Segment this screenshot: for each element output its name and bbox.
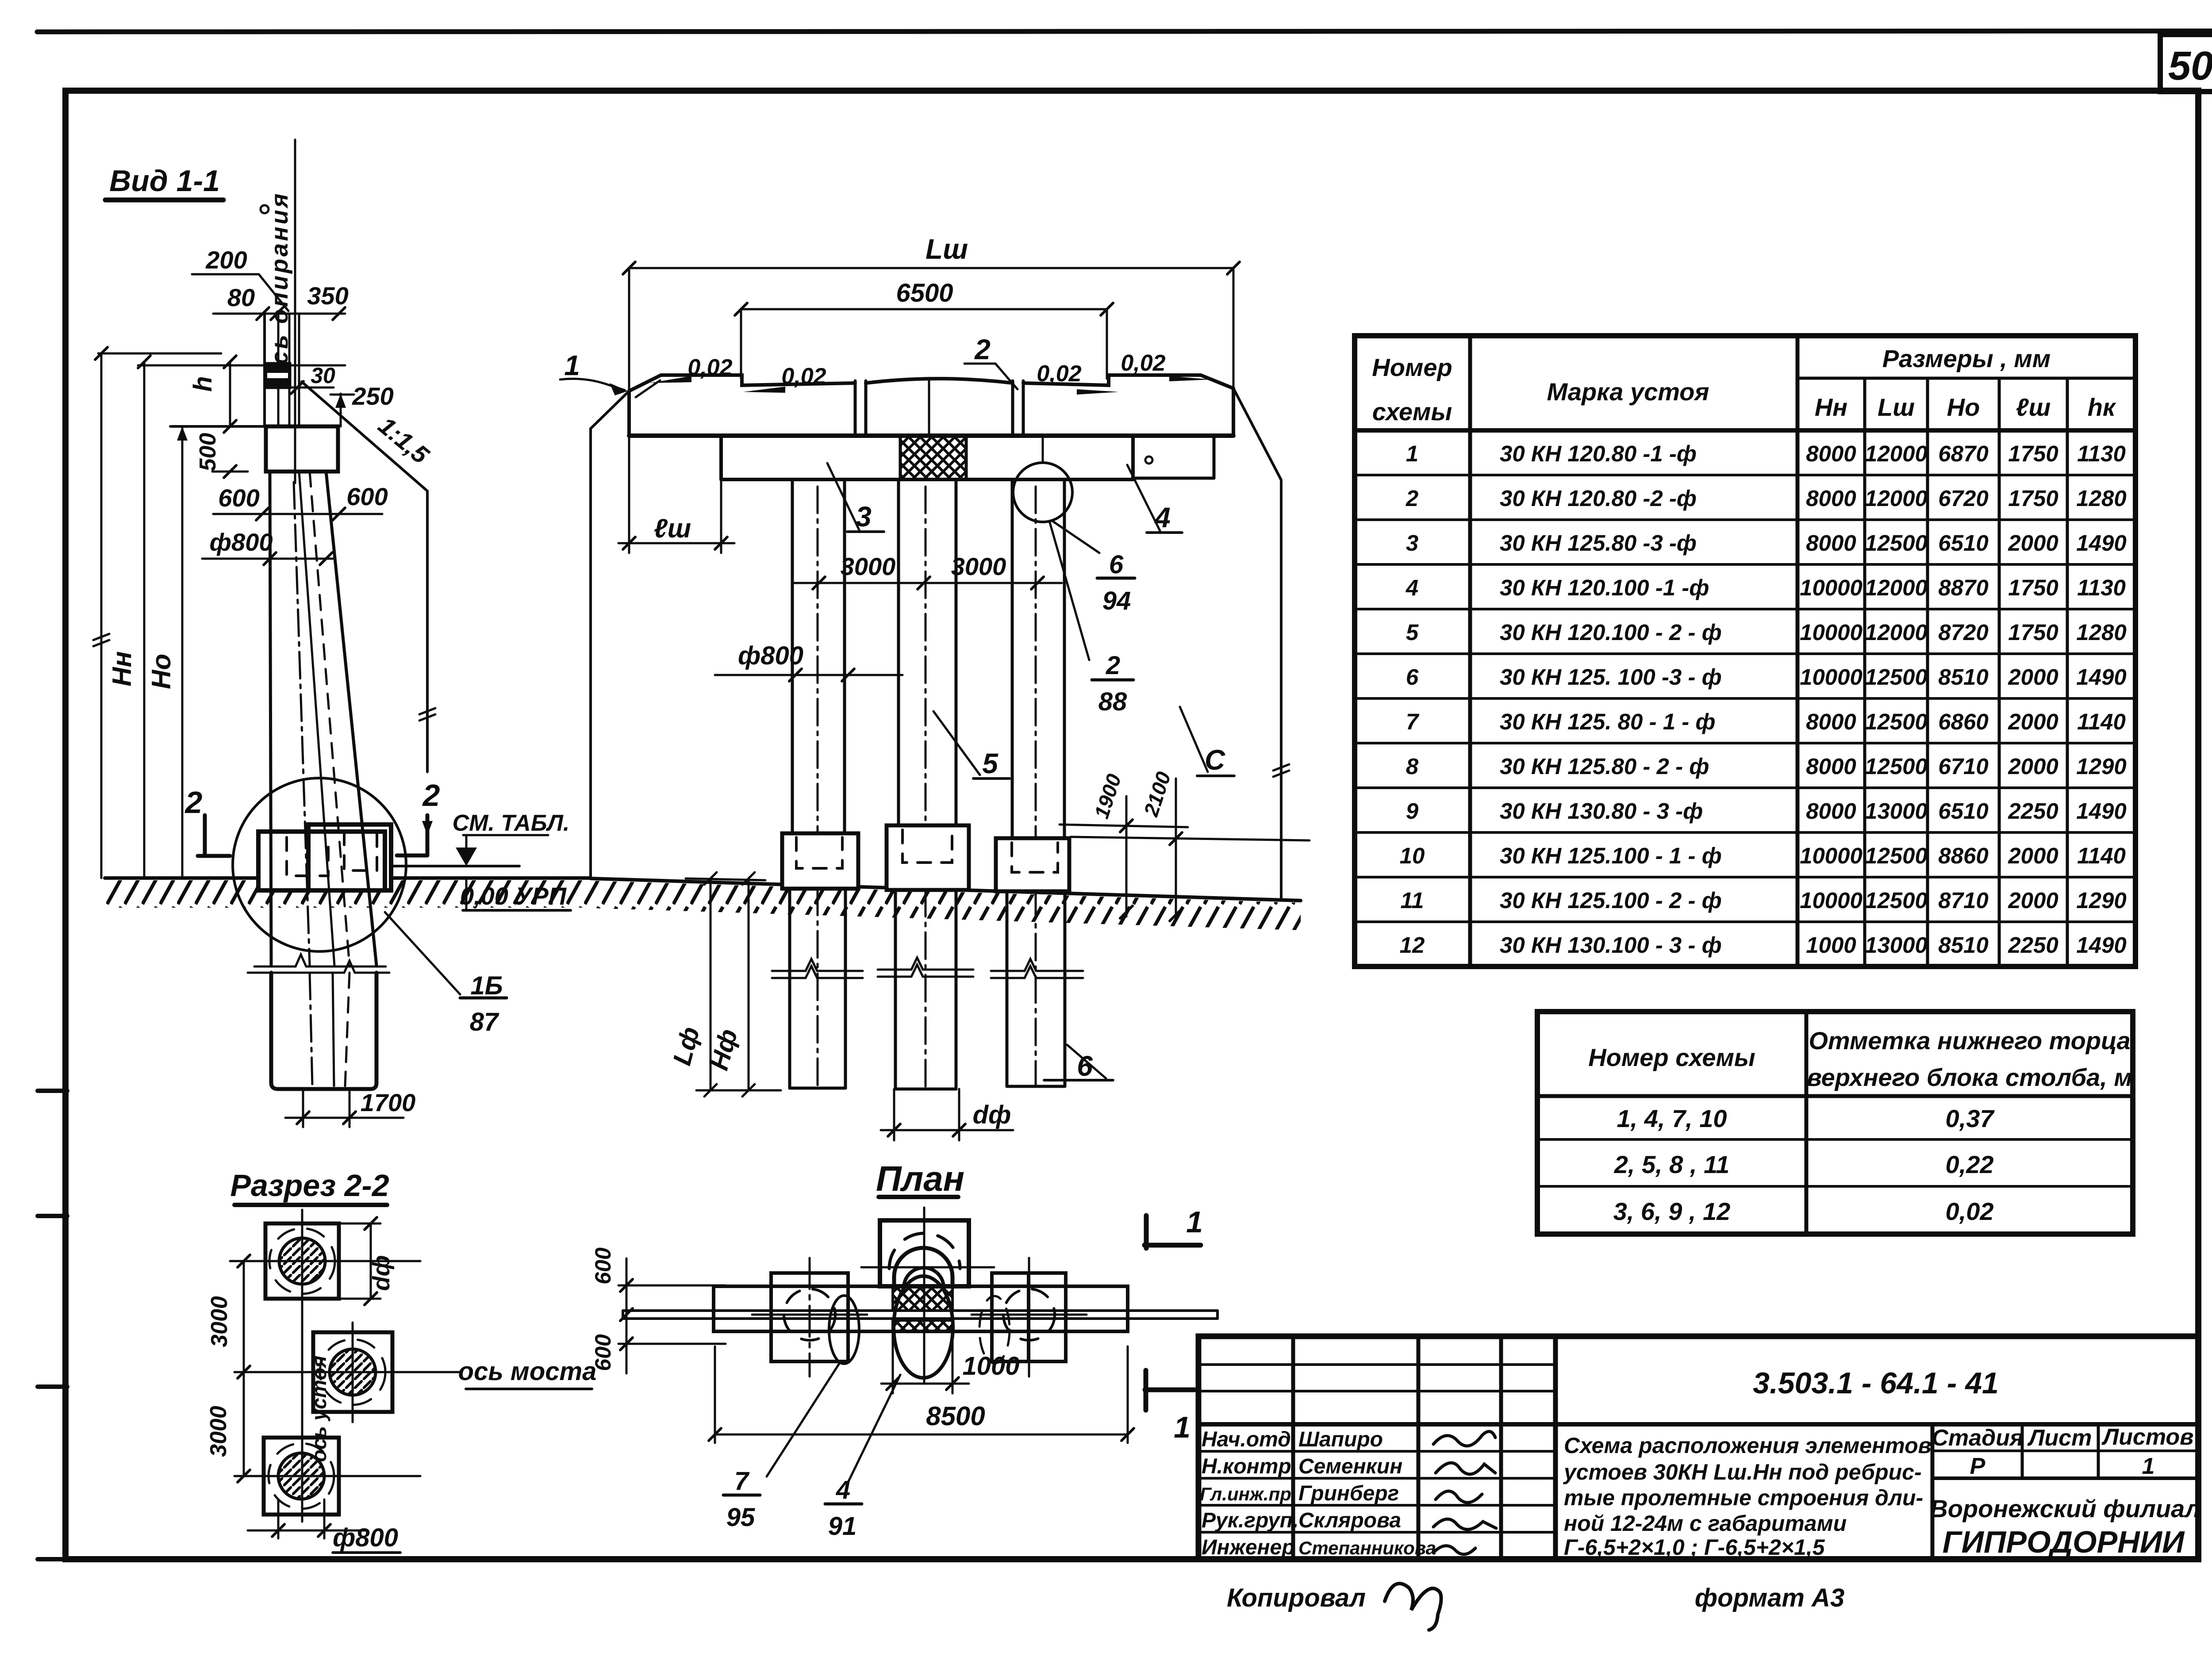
beam ends	[627, 391, 631, 436]
bearing axis line	[294, 140, 296, 483]
svg-text:600: 600	[591, 1247, 615, 1285]
svg-text:1: 1	[1174, 1411, 1190, 1444]
svg-text:1Б: 1Б	[470, 971, 503, 1000]
svg-text:12: 12	[1400, 932, 1425, 958]
slope wedge marks	[636, 380, 660, 397]
dim 1000	[892, 1332, 894, 1393]
svg-text:Но: Но	[146, 654, 176, 689]
svg-text:7: 7	[734, 1467, 750, 1496]
svg-text:95: 95	[726, 1503, 755, 1532]
svg-text:8000: 8000	[1806, 530, 1856, 556]
svg-text:30: 30	[311, 363, 335, 388]
cap (nasadka)	[719, 436, 723, 479]
back wall strip (long band)	[623, 1309, 1217, 1312]
SM.TABL leader	[453, 810, 570, 836]
svg-text:ф800: ф800	[210, 528, 273, 556]
svg-text:8000: 8000	[1806, 441, 1856, 466]
svg-text:План: План	[876, 1159, 964, 1198]
svg-text:8720: 8720	[1938, 620, 1988, 645]
svg-text:1: 1	[1406, 441, 1418, 466]
dim Lsh	[629, 267, 1233, 269]
square S3	[264, 1438, 339, 1515]
svg-text:ф800: ф800	[333, 1523, 398, 1552]
svg-text:Р: Р	[1970, 1453, 1985, 1479]
svg-text:10000: 10000	[1800, 575, 1863, 600]
foundation block B (view 1-1)	[308, 824, 391, 890]
column verticals	[263, 314, 266, 426]
svg-text:Стадия: Стадия	[1932, 1425, 2023, 1451]
callout 6	[1077, 1050, 1093, 1082]
svg-text:1, 4, 7, 10: 1, 4, 7, 10	[1617, 1104, 1727, 1132]
svg-text:8: 8	[1406, 754, 1419, 779]
svg-text:10: 10	[1400, 843, 1425, 868]
svg-text:3000: 3000	[951, 552, 1006, 580]
svg-text:7: 7	[1406, 709, 1420, 734]
svg-text:30 КН 120.100 - 2 - ф: 30 КН 120.100 - 2 - ф	[1500, 620, 1722, 645]
dim line 80/350	[213, 313, 345, 315]
section mark 2 (right)	[422, 778, 440, 813]
big ellipse (battered pile, plan)	[894, 1276, 953, 1378]
axis of bridge label	[458, 1357, 597, 1386]
svg-text:2000: 2000	[2008, 664, 2058, 690]
svg-text:0,02: 0,02	[781, 364, 826, 389]
svg-text:1000: 1000	[1806, 932, 1856, 958]
title block horizontals	[1198, 1363, 1555, 1366]
square S1	[265, 1223, 339, 1299]
pile break marks (view 1-1)	[254, 955, 386, 966]
svg-text:2: 2	[1106, 651, 1120, 680]
svg-text:2: 2	[422, 778, 440, 813]
svg-text:2000: 2000	[2008, 888, 2058, 913]
svg-text:1: 1	[1186, 1205, 1203, 1239]
svg-text:1140: 1140	[2077, 709, 2126, 734]
svg-text:6: 6	[1406, 664, 1419, 690]
svg-text:Схема расположения элементов: Схема расположения элементов	[1564, 1433, 1932, 1458]
svg-text:9: 9	[1406, 798, 1419, 824]
svg-text:8870: 8870	[1938, 575, 1988, 600]
svg-text:Размеры , мм: Размеры , мм	[1882, 345, 2051, 372]
svg-text:11: 11	[1401, 888, 1424, 913]
svg-text:600: 600	[346, 483, 388, 510]
dim 500	[170, 425, 266, 428]
svg-text:6500: 6500	[896, 279, 953, 307]
svg-text:1130: 1130	[2077, 441, 2126, 466]
svg-text:8000: 8000	[1806, 798, 1856, 824]
svg-text:10000: 10000	[1800, 664, 1863, 690]
beam joints	[854, 381, 857, 436]
dim 600+600	[213, 513, 382, 515]
svg-text:12500: 12500	[1865, 709, 1928, 734]
svg-text:12500: 12500	[1865, 530, 1928, 556]
ground line	[105, 876, 591, 880]
main table header text	[1372, 345, 2116, 426]
svg-text:Листов: Листов	[2101, 1424, 2193, 1450]
svg-text:5: 5	[1406, 620, 1419, 645]
svg-text:8500: 8500	[926, 1401, 985, 1431]
svg-text:1290: 1290	[2076, 754, 2126, 779]
svg-text:1700: 1700	[361, 1089, 416, 1116]
svg-text:30 КН 125.100 - 1 - ф: 30 КН 125.100 - 1 - ф	[1500, 843, 1722, 868]
svg-text:10000: 10000	[1800, 843, 1863, 868]
svg-text:Шапиро: Шапиро	[1298, 1428, 1383, 1451]
svg-text:Рук.груп.: Рук.груп.	[1202, 1509, 1298, 1532]
block top level line	[394, 865, 519, 867]
dim h	[229, 362, 231, 426]
title Vid 1-1	[109, 164, 220, 198]
pile break marks (elevation)	[772, 959, 863, 971]
fold mark tick 3	[38, 1384, 67, 1389]
centre top block (plan)	[880, 1220, 969, 1286]
beam bottom	[629, 433, 1233, 438]
section mark 2 (left)	[184, 785, 203, 820]
dim f800 (razrez)	[277, 1499, 280, 1538]
svg-text:6870: 6870	[1938, 441, 1988, 466]
title block outer border	[1198, 1336, 2198, 1559]
svg-text:30 КН 120.80 -1 -ф: 30 КН 120.80 -1 -ф	[1500, 441, 1697, 466]
fold mark bottom left	[38, 1557, 66, 1561]
svg-text:1750: 1750	[2008, 620, 2058, 645]
svg-text:91: 91	[828, 1512, 857, 1541]
svg-text:1280: 1280	[2076, 620, 2126, 645]
detail circle (elevation)	[1013, 463, 1072, 522]
fold mark tick 1	[38, 1089, 67, 1093]
callout 4	[1154, 502, 1171, 533]
svg-text:13000: 13000	[1865, 798, 1928, 824]
sheet top edge	[37, 31, 2212, 32]
svg-text:6860: 6860	[1938, 709, 1988, 734]
dims 1900 2100	[1060, 824, 1188, 827]
bearing pad hatch	[900, 436, 966, 479]
svg-text:1750: 1750	[2008, 441, 2058, 466]
svg-text:30 КН 120.100 -1 -ф: 30 КН 120.100 -1 -ф	[1500, 575, 1709, 600]
svg-text:2: 2	[974, 334, 991, 365]
svg-text:0,02: 0,02	[1037, 361, 1081, 387]
svg-text:500: 500	[195, 433, 221, 472]
dashed pile sockets in blocks	[287, 837, 328, 876]
svg-text:формат А3: формат А3	[1695, 1584, 1844, 1612]
svg-text:Номер схемы: Номер схемы	[1588, 1043, 1755, 1071]
svg-text:верхнего блока столба, м: верхнего блока столба, м	[1807, 1063, 2132, 1091]
callout C	[1205, 744, 1225, 776]
kopiroval signature	[1385, 1584, 1441, 1630]
signature rows	[1200, 1428, 1436, 1559]
svg-text:h: h	[188, 376, 217, 391]
svg-text:4: 4	[1406, 575, 1418, 600]
svg-text:12000: 12000	[1865, 575, 1928, 600]
svg-text:ной 12-24м с габаритами: ной 12-24м с габаритами	[1564, 1511, 1847, 1536]
section mark 1 (bottom)	[1174, 1411, 1190, 1444]
svg-text:Склярова: Склярова	[1298, 1509, 1401, 1532]
svg-text:2000: 2000	[2008, 530, 2058, 556]
dim df (razrez)	[339, 1223, 380, 1225]
fraction 6/94	[1052, 521, 1099, 553]
svg-text:30 КН 125.80 -3 -ф: 30 КН 125.80 -3 -ф	[1500, 530, 1697, 556]
page number box 50	[2160, 35, 2212, 92]
svg-text:ℓш: ℓш	[2016, 393, 2051, 421]
column cap (ogolovok)	[266, 426, 338, 472]
bearing pad block	[265, 364, 290, 387]
svg-text:1280: 1280	[2076, 486, 2126, 511]
svg-text:13000: 13000	[1865, 932, 1928, 958]
svg-text:устоев 30КН Lш.Нн под ребрис-: устоев 30КН Lш.Нн под ребрис-	[1563, 1460, 1922, 1484]
svg-text:1000: 1000	[962, 1352, 1019, 1381]
svg-text:1: 1	[564, 349, 580, 381]
svg-text:схемы: схемы	[1372, 398, 1452, 426]
right shelf	[1213, 436, 1216, 478]
callout 2	[974, 334, 991, 365]
svg-text:5: 5	[982, 748, 998, 779]
svg-text:1490: 1490	[2076, 932, 2126, 958]
svg-text:12500: 12500	[1865, 843, 1928, 868]
signatures squiggles	[1433, 1431, 1495, 1446]
middle beam axis	[928, 380, 930, 436]
svg-text:12000: 12000	[1865, 620, 1928, 645]
left block (plan)	[771, 1273, 848, 1361]
svg-text:3, 6, 9 , 12: 3, 6, 9 , 12	[1613, 1197, 1731, 1225]
svg-text:80: 80	[227, 284, 255, 311]
svg-text:10000: 10000	[1800, 888, 1863, 913]
0.00 URP label	[460, 882, 567, 910]
svg-text:Отметка нижнего торца: Отметка нижнего торца	[1809, 1027, 2130, 1055]
svg-text:6510: 6510	[1938, 798, 1988, 824]
section mark 1 (top)	[1186, 1205, 1203, 1239]
foundation blocks fill mask (view 1-1)	[258, 832, 385, 890]
dim 250	[340, 394, 342, 426]
right block (plan)	[992, 1273, 1066, 1361]
square S2	[313, 1332, 392, 1412]
dim df	[893, 1089, 895, 1140]
svg-text:12000: 12000	[1865, 486, 1928, 511]
dashed circle in top block	[889, 1233, 960, 1269]
svg-text:Г-6,5+2×1,0 ; Г-6,5+2×1,5: Г-6,5+2×1,0 ; Г-6,5+2×1,5	[1564, 1535, 1825, 1560]
svg-text:4: 4	[1154, 502, 1171, 533]
svg-text:Гринберг: Гринберг	[1298, 1482, 1399, 1505]
fraction 2/88	[1049, 521, 1089, 660]
fraction 7/95	[767, 1361, 841, 1476]
piles below ground (elevation)	[788, 889, 791, 1088]
svg-text:ℓш: ℓш	[654, 514, 691, 543]
embankment wings	[591, 391, 629, 429]
svg-text:2: 2	[184, 785, 203, 820]
doc number	[1753, 1366, 1999, 1400]
title block verticals	[1291, 1336, 1295, 1559]
kopiroval / format	[1227, 1584, 1844, 1612]
svg-text:Семенкин: Семенкин	[1298, 1455, 1402, 1478]
callout 5	[982, 748, 998, 779]
svg-text:2250: 2250	[2008, 932, 2058, 958]
svg-text:12500: 12500	[1865, 754, 1928, 779]
fraction 4/91	[847, 1375, 900, 1484]
svg-text:Вид 1-1: Вид 1-1	[109, 164, 220, 198]
leader 200	[192, 274, 288, 311]
dim 3000 3000 (razrez)	[243, 1261, 245, 1476]
svg-text:2, 5, 8 , 11: 2, 5, 8 , 11	[1614, 1150, 1729, 1178]
svg-text:2000: 2000	[2008, 843, 2058, 868]
svg-text:тые пролетные строения дли-: тые пролетные строения дли-	[1564, 1485, 1923, 1510]
svg-text:ф800: ф800	[738, 641, 803, 670]
ground hatch strip	[105, 880, 591, 908]
svg-text:Степанникова: Степанникова	[1298, 1538, 1436, 1558]
svg-text:94: 94	[1102, 587, 1131, 615]
dim f800 elevation	[715, 674, 902, 676]
svg-text:3000: 3000	[207, 1296, 232, 1347]
centre block centerlines	[923, 1208, 926, 1384]
svg-text:0,37: 0,37	[1946, 1104, 1995, 1132]
svg-text:30 КН 120.80 -2 -ф: 30 КН 120.80 -2 -ф	[1500, 486, 1697, 511]
svg-text:30 КН 125. 80 - 1 - ф: 30 КН 125. 80 - 1 - ф	[1500, 709, 1716, 734]
svg-text:200: 200	[205, 246, 247, 274]
svg-text:Нач.отд.: Нач.отд.	[1202, 1428, 1297, 1451]
svg-text:3.503.1 - 64.1 - 41: 3.503.1 - 64.1 - 41	[1753, 1366, 1999, 1400]
dim f800 (view 1-1)	[202, 558, 335, 560]
solid horseshoe in top block	[894, 1248, 952, 1288]
slope labels 0,02	[687, 350, 1165, 389]
svg-text:Воронежский филиал: Воронежский филиал	[1930, 1495, 2200, 1522]
svg-text:Lш: Lш	[1878, 393, 1915, 421]
svg-text:Нн: Нн	[107, 651, 137, 686]
svg-text:8710: 8710	[1938, 888, 1988, 913]
svg-text:ГИПРОДОРНИИ: ГИПРОДОРНИИ	[1943, 1525, 2185, 1559]
svg-text:Гл.инж.пр.: Гл.инж.пр.	[1200, 1484, 1297, 1504]
title Razrez 2-2	[230, 1168, 389, 1203]
piles elevation	[791, 479, 794, 833]
svg-text:Копировал: Копировал	[1227, 1584, 1366, 1612]
svg-text:8510: 8510	[1938, 664, 1988, 690]
Ho dimension line	[143, 362, 146, 878]
svg-text:1: 1	[2142, 1453, 2155, 1479]
svg-text:10000: 10000	[1800, 620, 1863, 645]
cap-top level dimension line	[181, 426, 184, 878]
dim 30	[291, 387, 334, 389]
dim lsh (left)	[628, 436, 630, 553]
svg-text:Номер: Номер	[1372, 353, 1452, 381]
svg-text:1490: 1490	[2076, 798, 2126, 824]
ellipse at left block	[829, 1296, 859, 1364]
svg-text:8860: 8860	[1938, 843, 1988, 868]
bearing axis label	[266, 192, 293, 381]
project description	[1563, 1433, 1932, 1560]
svg-text:88: 88	[1098, 687, 1127, 716]
top shelf line	[98, 353, 221, 355]
callout 1	[564, 349, 580, 381]
svg-text:6710: 6710	[1938, 754, 1988, 779]
svg-text:8000: 8000	[1806, 486, 1856, 511]
battered pile lines (view 1-1)	[270, 472, 271, 966]
svg-text:Марка устоя: Марка устоя	[1547, 378, 1709, 406]
svg-text:0,02: 0,02	[1121, 350, 1165, 376]
svg-text:1490: 1490	[2076, 664, 2126, 690]
main table horizontals	[1797, 377, 2135, 380]
svg-text:30 КН 125.80 - 2 - ф: 30 КН 125.80 - 2 - ф	[1500, 754, 1709, 779]
svg-text:1750: 1750	[2008, 575, 2058, 600]
svg-text:12500: 12500	[1865, 664, 1928, 690]
svg-text:30 КН 130.100 - 3 - ф: 30 КН 130.100 - 3 - ф	[1500, 932, 1722, 958]
dim 1700	[302, 1089, 304, 1127]
dashed ellipse at right block	[979, 1296, 1010, 1363]
svg-text:3: 3	[1406, 530, 1418, 556]
svg-text:0,02: 0,02	[1946, 1197, 1994, 1225]
main table data	[1400, 441, 2127, 958]
svg-text:12000: 12000	[1865, 441, 1928, 466]
svg-text:1290: 1290	[2076, 888, 2126, 913]
svg-text:350: 350	[307, 282, 348, 310]
title Plan	[876, 1159, 964, 1198]
second table outer border	[1537, 1012, 2133, 1234]
svg-text:4: 4	[836, 1476, 850, 1504]
svg-text:2000: 2000	[2008, 754, 2058, 779]
foundation block A (view 1-1)	[258, 832, 385, 890]
svg-text:0,22: 0,22	[1946, 1150, 1994, 1178]
foundation blocks (elevation)	[782, 833, 858, 889]
Hn dimension line	[100, 353, 103, 878]
cap strip (plan)	[714, 1286, 1128, 1331]
svg-text:30 КН 125. 100 -3 - ф: 30 КН 125. 100 -3 - ф	[1500, 664, 1722, 690]
dim 6500	[741, 308, 1107, 311]
svg-text:12500: 12500	[1865, 888, 1928, 913]
svg-text:2000: 2000	[2008, 709, 2058, 734]
svg-text:30 КН 125.100 - 2 - ф: 30 КН 125.100 - 2 - ф	[1500, 888, 1722, 913]
svg-text:Нн: Нн	[1815, 393, 1847, 421]
svg-text:Разрез 2-2: Разрез 2-2	[230, 1168, 389, 1203]
organisation	[1930, 1495, 2200, 1559]
svg-text:Н.контр.: Н.контр.	[1202, 1455, 1297, 1478]
fold mark tick 2	[38, 1214, 67, 1218]
svg-text:1490: 1490	[2076, 530, 2126, 556]
svg-text:3000: 3000	[841, 552, 896, 580]
svg-text:Lш: Lш	[926, 233, 968, 265]
stage/sheet header	[1932, 1424, 2193, 1479]
svg-text:8000: 8000	[1806, 754, 1856, 779]
svg-text:30 КН 130.80 - 3 -ф: 30 КН 130.80 - 3 -ф	[1500, 798, 1703, 824]
main table verticals	[1468, 336, 1472, 966]
svg-text:87: 87	[470, 1008, 499, 1036]
detail leader 1B/87	[385, 912, 460, 994]
svg-text:dф: dф	[368, 1255, 395, 1291]
callout 3	[856, 501, 872, 533]
svg-text:8510: 8510	[1938, 932, 1988, 958]
dim 3000+3000	[792, 582, 1062, 584]
axis of abutment line	[301, 1210, 303, 1522]
svg-text:2: 2	[1406, 486, 1418, 511]
beam top profile	[629, 375, 855, 391]
small circle marks	[261, 205, 269, 213]
svg-text:6720: 6720	[1938, 486, 1988, 511]
svg-text:СМ. ТАБЛ.: СМ. ТАБЛ.	[453, 810, 570, 836]
svg-text:1750: 1750	[2008, 486, 2058, 511]
svg-text:Инженер: Инженер	[1202, 1536, 1295, 1559]
svg-text:Лист: Лист	[2027, 1425, 2092, 1451]
svg-text:ось моста: ось моста	[458, 1357, 597, 1386]
dashed sockets in blocks	[796, 837, 842, 868]
lower pile (view 1-1)	[271, 973, 376, 1089]
svg-text:2250: 2250	[2008, 798, 2058, 824]
svg-text:1140: 1140	[2077, 843, 2126, 868]
svg-text:250: 250	[352, 382, 393, 410]
svg-text:hк: hк	[2088, 393, 2116, 421]
svg-text:1130: 1130	[2077, 575, 2126, 600]
slope 1:1.5 line	[302, 382, 427, 491]
detail circle (view 1-1)	[233, 778, 406, 951]
svg-text:dф: dф	[973, 1101, 1011, 1129]
svg-text:6: 6	[1109, 550, 1124, 579]
dim 8500	[714, 1346, 716, 1443]
dims Lf Hf	[710, 878, 712, 1090]
svg-text:0,02: 0,02	[687, 355, 732, 380]
hatched bearing area (plan)	[893, 1286, 952, 1311]
svg-text:50: 50	[2168, 43, 2212, 88]
svg-text:Но: Но	[1947, 393, 1980, 421]
svg-text:3000: 3000	[206, 1406, 231, 1457]
